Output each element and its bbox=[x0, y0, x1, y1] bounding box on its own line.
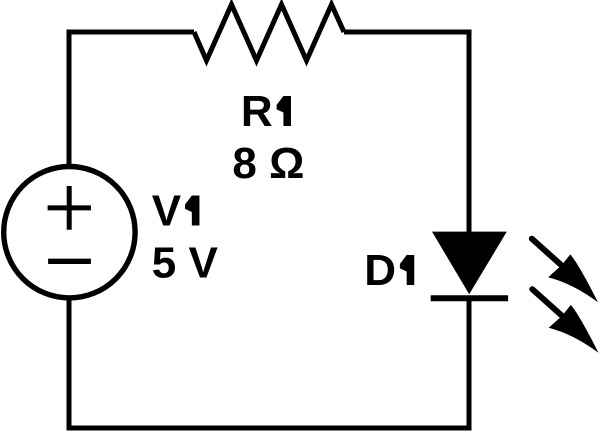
svg-text:D: D bbox=[364, 246, 396, 295]
wire from source top to resistor left (top-left corner) bbox=[69, 32, 194, 165]
minus sign bbox=[48, 259, 91, 264]
svg-text:8 Ω: 8 Ω bbox=[232, 139, 304, 188]
wire from LED bottom to source bottom (bottom corners) bbox=[69, 297, 469, 428]
voltage source V1 circle bbox=[4, 167, 135, 298]
LED arrow 1 shaft bbox=[532, 239, 563, 267]
svg-text:5 V: 5 V bbox=[152, 238, 219, 287]
LED D1 triangle bbox=[432, 232, 507, 295]
LED D1 cathode bar bbox=[431, 295, 508, 301]
plus sign bbox=[48, 186, 91, 230]
LED arrow 2 shaft bbox=[532, 289, 563, 317]
LED arrow 2 head bbox=[549, 305, 599, 353]
resistor R1 bbox=[194, 5, 344, 61]
LED arrow 1 head bbox=[548, 254, 598, 302]
wire from resistor right to LED top (top-right corner) bbox=[344, 32, 469, 233]
svg-text:R: R bbox=[241, 87, 273, 136]
svg-text:V: V bbox=[152, 187, 182, 236]
